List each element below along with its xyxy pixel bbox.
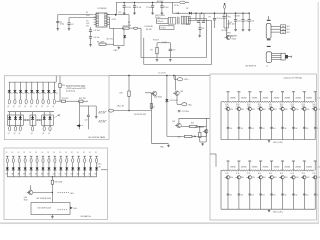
inner box xyxy=(31,203,70,215)
wire xyxy=(195,13,197,20)
wire xyxy=(174,78,177,80)
connector J1 xyxy=(266,24,271,39)
svg-text:R 1K: R 1K xyxy=(225,173,228,175)
transistor Q33 xyxy=(203,130,208,134)
svg-text:100: 100 xyxy=(230,128,232,130)
wire xyxy=(235,13,237,19)
svg-text:C9 47u: C9 47u xyxy=(216,18,222,20)
resistor R10 xyxy=(59,83,61,87)
wire xyxy=(8,82,10,90)
capacitor C4 xyxy=(89,37,92,38)
transistor QB7 xyxy=(290,176,295,180)
junction xyxy=(128,75,129,76)
svg-text:GND: GND xyxy=(114,50,119,52)
capacitor C1 xyxy=(56,21,59,22)
wire xyxy=(36,93,38,100)
svg-text:D1: D1 xyxy=(89,152,91,154)
wire xyxy=(151,142,168,144)
wire xyxy=(260,161,262,170)
U1 right pin 9 xyxy=(104,16,109,18)
wire xyxy=(272,53,281,55)
dashed wire xyxy=(58,209,68,211)
svg-text:100: 100 xyxy=(295,195,297,197)
wire xyxy=(30,163,32,168)
svg-text:D1: D1 xyxy=(77,152,79,154)
wire xyxy=(272,58,281,60)
svg-text:R30 100R: R30 100R xyxy=(55,181,63,183)
U1 left pin 3 xyxy=(94,19,99,21)
pin loop P47 xyxy=(48,99,50,104)
wire xyxy=(42,170,44,177)
capacitor C8 xyxy=(160,6,163,7)
svg-text:C9 400V: C9 400V xyxy=(234,16,241,18)
svg-text:2SD965: 2SD965 xyxy=(274,167,280,169)
wire xyxy=(96,163,98,168)
svg-text:8550: 8550 xyxy=(230,109,233,111)
wire xyxy=(66,163,68,168)
J1 pin box 3 xyxy=(281,31,286,34)
wire xyxy=(205,118,207,137)
capacitor C20 xyxy=(87,115,90,116)
wire xyxy=(199,29,201,34)
J1 pin box 2 xyxy=(281,28,286,31)
wire xyxy=(49,112,51,118)
junction xyxy=(124,2,125,3)
svg-text:ZD 5V1: ZD 5V1 xyxy=(107,38,113,40)
svg-text:2SD965: 2SD965 xyxy=(230,98,236,100)
wire xyxy=(199,22,201,27)
svg-text:D1: D1 xyxy=(53,152,55,154)
svg-text:R 1K: R 1K xyxy=(236,104,239,106)
wire xyxy=(249,161,251,170)
capacitor C11 xyxy=(222,17,225,18)
svg-text:8550: 8550 xyxy=(285,109,288,111)
wire xyxy=(90,38,92,44)
wire xyxy=(12,156,14,158)
wire xyxy=(166,135,168,137)
wire xyxy=(72,163,74,168)
wire xyxy=(272,56,281,58)
wire xyxy=(60,163,62,168)
wire xyxy=(249,179,251,209)
svg-text:8550: 8550 xyxy=(306,177,309,179)
svg-text:D1: D1 xyxy=(71,152,73,154)
capacitor CA2 xyxy=(238,126,241,128)
svg-text:Q1: Q1 xyxy=(7,106,9,108)
wire xyxy=(282,111,284,140)
pin loop PT xyxy=(224,5,226,9)
wire xyxy=(68,24,70,27)
junction xyxy=(44,116,45,117)
junction xyxy=(25,119,26,120)
svg-text:8550: 8550 xyxy=(241,177,244,179)
svg-text:V1: V1 xyxy=(56,93,58,95)
pin loop P53 xyxy=(31,126,33,131)
svg-text:2SD965: 2SD965 xyxy=(252,98,258,100)
svg-text:8550: 8550 xyxy=(306,109,309,111)
wire loop xyxy=(114,28,124,45)
wire xyxy=(185,1,189,3)
svg-text:R 1K: R 1K xyxy=(291,104,294,106)
pin header P16 xyxy=(292,160,295,162)
wire xyxy=(272,55,281,57)
wire xyxy=(214,20,216,28)
IC U2 xyxy=(157,19,169,24)
wire xyxy=(24,170,26,177)
svg-text:V1: V1 xyxy=(11,93,13,95)
svg-text:13001: 13001 xyxy=(232,39,237,41)
svg-text:R 1K: R 1K xyxy=(313,104,316,106)
svg-text:V1: V1 xyxy=(17,93,19,95)
svg-text:Q2: Q2 xyxy=(31,133,33,135)
ground xyxy=(133,12,136,15)
pin P21 xyxy=(12,155,14,157)
series box B2 xyxy=(30,115,36,125)
wire xyxy=(32,112,34,118)
wire xyxy=(223,13,225,16)
wire xyxy=(31,82,33,90)
wire xyxy=(79,106,81,129)
pin header P1 xyxy=(227,91,230,93)
capacitor C9b xyxy=(213,19,216,20)
pin P33 xyxy=(83,155,85,157)
wire xyxy=(271,31,281,33)
svg-text:KEY: KEY xyxy=(287,32,291,34)
transistor QA1 xyxy=(225,107,230,111)
wire xyxy=(54,163,56,168)
pin loop PB2 xyxy=(18,158,20,162)
wire xyxy=(24,163,26,168)
wire xyxy=(54,170,56,177)
wire xyxy=(260,179,262,209)
svg-text:100: 100 xyxy=(241,195,243,197)
wire xyxy=(227,161,229,170)
wire xyxy=(109,75,210,77)
svg-text:GND (+5-24V): GND (+5-24V) xyxy=(273,211,283,213)
svg-text:2SD965: 2SD965 xyxy=(241,98,247,100)
svg-text:2SD965: 2SD965 xyxy=(285,98,291,100)
wire xyxy=(59,88,61,102)
junction xyxy=(199,126,200,127)
wire xyxy=(72,170,74,177)
LED D40 xyxy=(6,168,9,170)
LED D25 xyxy=(48,117,51,119)
wire xyxy=(53,82,55,90)
svg-text:Q1: Q1 xyxy=(52,106,54,108)
junction xyxy=(27,119,28,120)
pin loop P45 xyxy=(36,99,38,104)
wire xyxy=(203,13,205,20)
wire xyxy=(134,7,136,12)
wire xyxy=(48,93,50,100)
svg-text:100: 100 xyxy=(252,128,254,130)
svg-text:Q1: Q1 xyxy=(47,106,49,108)
connector J2 xyxy=(266,52,271,63)
pin P31 xyxy=(72,155,74,157)
wire xyxy=(87,117,89,129)
wire xyxy=(123,7,125,12)
svg-text:LED: LED xyxy=(17,174,20,176)
LED D50 xyxy=(65,168,68,170)
wire xyxy=(60,170,62,177)
wire xyxy=(115,2,117,14)
ground xyxy=(68,28,71,31)
junction xyxy=(249,13,250,14)
wire xyxy=(271,28,281,30)
svg-text:R 1K: R 1K xyxy=(225,104,228,106)
pin header P9 xyxy=(314,91,317,93)
wire xyxy=(36,156,38,158)
svg-text:D1: D1 xyxy=(18,152,20,154)
svg-text:LED-: LED- xyxy=(188,104,192,106)
wire xyxy=(6,170,8,177)
U1 right pin 7 xyxy=(104,21,109,23)
wire xyxy=(192,135,194,137)
series box B3 xyxy=(42,115,54,125)
wire xyxy=(173,76,175,79)
wire xyxy=(56,100,61,102)
capacitor CA3 xyxy=(249,126,252,128)
transformer T1 core xyxy=(177,17,179,24)
wire xyxy=(20,93,22,100)
wire xyxy=(200,141,206,143)
wire xyxy=(53,93,55,100)
J1 pin box 1 xyxy=(281,25,286,28)
pin header P15 xyxy=(281,160,284,162)
pin loop PB12 xyxy=(78,158,80,162)
capacitor CB2 xyxy=(238,193,241,195)
ground xyxy=(161,12,164,15)
junction xyxy=(201,13,202,14)
svg-text:GND (+5-24V): GND (+5-24V) xyxy=(273,142,283,144)
ground xyxy=(95,116,98,119)
svg-text:nc: nc xyxy=(266,66,268,68)
svg-text:R20: R20 xyxy=(120,93,123,95)
U1 right pin 6 xyxy=(104,24,109,26)
svg-text:Q2: Q2 xyxy=(48,133,50,135)
svg-text:Q1: Q1 xyxy=(41,106,43,108)
wire xyxy=(144,64,212,66)
connector J2 key bar xyxy=(267,46,271,47)
wire xyxy=(19,112,21,118)
pin header P11 xyxy=(237,160,240,162)
U1 right pin 8 xyxy=(104,19,109,21)
wire xyxy=(9,112,11,118)
transistor QB2 xyxy=(236,176,241,180)
svg-text:2SD965: 2SD965 xyxy=(263,98,269,100)
wire xyxy=(90,27,92,30)
svg-text:Q2: Q2 xyxy=(8,133,10,135)
ground xyxy=(117,46,120,49)
svg-text:R 1K: R 1K xyxy=(269,173,272,175)
LED D12 xyxy=(19,90,22,92)
transistor Q32 xyxy=(175,123,181,128)
svg-text:2SD965: 2SD965 xyxy=(295,167,301,169)
wire xyxy=(106,43,114,45)
pin P30 xyxy=(66,155,68,157)
pin loop P40 xyxy=(8,99,10,104)
wire xyxy=(79,101,81,106)
wire xyxy=(215,154,217,167)
capacitor CB7 xyxy=(292,193,295,195)
svg-text:OUT: OUT xyxy=(98,167,101,169)
svg-text:2SD965: 2SD965 xyxy=(295,98,301,100)
wire xyxy=(172,2,174,13)
capacitor CA9 xyxy=(314,126,317,128)
wire xyxy=(59,76,61,84)
svg-text:C16: C16 xyxy=(251,21,254,23)
svg-text:R6 10K: R6 10K xyxy=(146,29,153,31)
svg-text:DIO: DIO xyxy=(86,25,90,27)
svg-text:LED: LED xyxy=(47,174,50,176)
svg-text:5V-24V R2-10R: 5V-24V R2-10R xyxy=(134,114,147,116)
wire xyxy=(211,21,213,65)
capacitor C21 xyxy=(178,110,181,111)
wire xyxy=(177,103,181,105)
wire xyxy=(84,156,86,158)
wire xyxy=(18,156,20,158)
wire xyxy=(303,161,305,170)
wire xyxy=(150,93,152,144)
pin header P7 xyxy=(292,91,295,93)
pin loop PB7 xyxy=(48,158,50,162)
svg-text:V1: V1 xyxy=(28,93,30,95)
wire xyxy=(18,170,20,177)
pin loop PB15 xyxy=(96,158,98,162)
svg-text:V1: V1 xyxy=(39,93,41,95)
svg-text:LED SWITCH: LED SWITCH xyxy=(245,66,257,68)
transistor Q40 xyxy=(27,190,33,195)
resistor R24 xyxy=(185,135,193,137)
wire xyxy=(141,57,206,59)
LED D23 xyxy=(31,117,34,119)
wire xyxy=(166,102,168,135)
svg-text:R24: R24 xyxy=(178,136,181,138)
connector J1 bottom bar xyxy=(267,39,271,40)
svg-text:R9: R9 xyxy=(209,17,211,19)
pin P29 xyxy=(60,155,62,157)
junction xyxy=(39,119,40,120)
svg-text:R13 100R: R13 100R xyxy=(98,113,106,115)
wire xyxy=(220,170,222,209)
wire xyxy=(107,14,116,16)
resistor R1 xyxy=(99,43,106,45)
wire xyxy=(161,2,163,5)
svg-text:104: 104 xyxy=(128,25,131,27)
arrow xyxy=(70,207,73,210)
wire xyxy=(84,170,86,177)
capacitor C8b xyxy=(198,28,201,29)
pin P22 xyxy=(18,155,20,157)
svg-text:VDD: VDD xyxy=(86,15,90,17)
capacitor C13 xyxy=(169,49,172,50)
ground xyxy=(151,12,154,15)
LED D16 xyxy=(42,90,45,92)
svg-text:KEY: KEY xyxy=(287,26,291,28)
svg-text:D1: D1 xyxy=(6,152,8,154)
capacitor CA7 xyxy=(292,126,295,128)
wire xyxy=(128,96,130,110)
wire xyxy=(36,82,38,90)
svg-text:LED: LED xyxy=(23,174,26,176)
wire xyxy=(18,163,20,168)
wire xyxy=(83,100,88,102)
wire xyxy=(42,156,44,158)
wire xyxy=(66,100,79,102)
svg-text:R 1K: R 1K xyxy=(269,104,272,106)
capacitor CA5 xyxy=(270,126,273,128)
wire xyxy=(227,92,229,102)
svg-text:C14: C14 xyxy=(237,21,240,23)
svg-text:Q1: Q1 xyxy=(30,106,32,108)
svg-text:Q2: Q2 xyxy=(14,133,16,135)
svg-text:100: 100 xyxy=(306,128,308,130)
wire xyxy=(90,31,92,36)
wire xyxy=(48,163,50,168)
svg-text:8550: 8550 xyxy=(252,109,255,111)
wire xyxy=(66,156,68,158)
wire xyxy=(225,13,227,37)
wire xyxy=(227,179,229,209)
wire xyxy=(199,127,201,132)
wire xyxy=(42,163,44,168)
wire xyxy=(6,163,8,168)
wire xyxy=(248,21,250,28)
dashed wire xyxy=(99,111,107,113)
pin P27 xyxy=(48,155,50,157)
svg-text:VOUT: VOUT xyxy=(112,19,117,21)
svg-text:100: 100 xyxy=(306,195,308,197)
svg-text:D1: D1 xyxy=(95,152,97,154)
wire xyxy=(12,170,14,177)
wire xyxy=(9,81,57,83)
wire xyxy=(68,18,70,23)
wire xyxy=(109,17,111,28)
ground xyxy=(201,143,204,146)
pin loop P46 xyxy=(42,99,44,104)
svg-text:V1: V1 xyxy=(50,93,52,95)
transistor QA5 xyxy=(268,107,273,111)
wire xyxy=(167,135,185,137)
LED D22 xyxy=(19,117,22,119)
wire xyxy=(96,170,98,177)
wire xyxy=(43,112,45,118)
svg-text:Q30 8550: Q30 8550 xyxy=(154,97,162,99)
pin loop PB4 xyxy=(30,158,32,162)
pin loop PB3 xyxy=(24,158,26,162)
LED D52 xyxy=(77,168,80,170)
wire xyxy=(169,51,171,58)
svg-text:R 1K: R 1K xyxy=(236,173,239,175)
svg-text:8550: 8550 xyxy=(295,109,298,111)
svg-text:2SD965: 2SD965 xyxy=(274,98,280,100)
wire xyxy=(101,169,108,171)
svg-text:C21 100u: C21 100u xyxy=(182,111,189,113)
junction xyxy=(152,2,153,3)
panel frame right xyxy=(210,74,316,220)
pin header P13 xyxy=(259,160,262,162)
svg-text:+5V: +5V xyxy=(228,16,232,18)
pin loop P54 xyxy=(43,126,45,131)
wire xyxy=(249,92,251,102)
svg-text:C2: C2 xyxy=(71,24,73,26)
ground xyxy=(268,209,271,212)
diode D31 xyxy=(165,99,168,101)
wire xyxy=(8,111,54,113)
pin P34 xyxy=(89,155,91,157)
wire xyxy=(176,95,178,104)
pin loop P55 xyxy=(49,126,51,131)
